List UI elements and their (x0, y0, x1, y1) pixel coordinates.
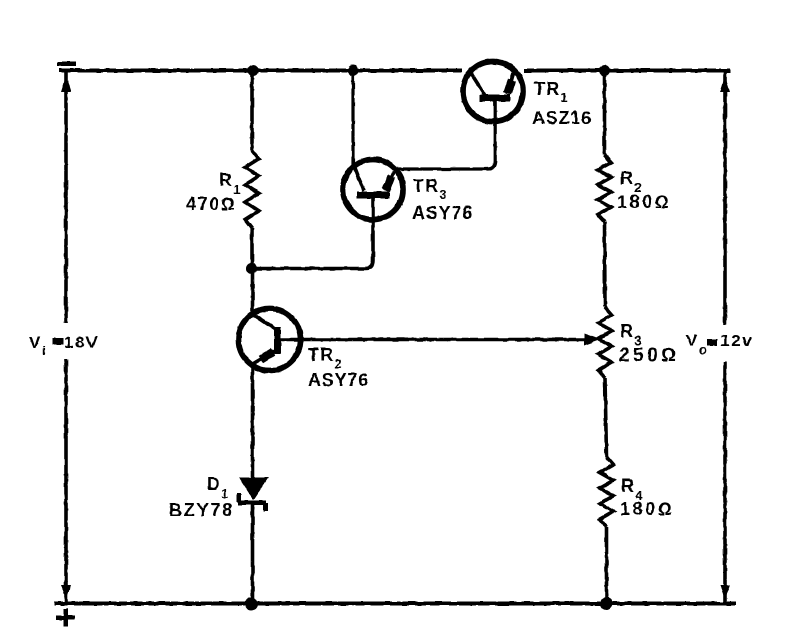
wire R2 top lead (603, 71, 607, 156)
svg-text:BZY78: BZY78 (169, 500, 234, 520)
transistor TR2 emitter arrow blob (261, 352, 273, 360)
wire bottom rail (54, 602, 736, 606)
arrowhead Vo top (720, 76, 730, 92)
transistor TR1 emitter arrow blob (508, 80, 513, 94)
plus sign bottom left (56, 616, 75, 621)
transistor TR2 base bar (274, 327, 281, 354)
svg-text:470Ω: 470Ω (186, 194, 236, 214)
transistor TR1 right diagonal (508, 73, 514, 94)
equals sign of Vi label (53, 338, 64, 345)
wire left input line upper (64, 69, 68, 323)
transistor TR3 circle (343, 160, 403, 220)
arrowhead Vi top (61, 76, 71, 92)
equals sign of Vo label (707, 339, 717, 346)
wire left input line lower (64, 359, 68, 605)
node R2 top on rail (599, 65, 610, 76)
resistor R4 (600, 457, 614, 527)
wire TR3 collector lead from rail (351, 71, 354, 166)
transistor TR2 lower diagonal (253, 351, 276, 364)
wire TR2 base to R3 wiper (280, 338, 585, 342)
resistor R2 (598, 155, 612, 222)
wire node A to TR2 collector (251, 269, 255, 314)
zener D1 left hook (237, 493, 242, 502)
wire right output line lower (723, 362, 727, 605)
arrowhead Vo bottom (720, 585, 730, 600)
arrowhead Vi bottom (61, 585, 71, 600)
zener diode D1 triangle (239, 478, 269, 501)
R3 wiper arrowhead (584, 334, 601, 346)
node A junction R1/TR3/TR2 (246, 263, 257, 274)
wire R1 top lead (250, 71, 254, 151)
transistor TR1 circle (463, 62, 523, 122)
svg-text:180Ω: 180Ω (617, 192, 671, 212)
wire R3 to R4 (605, 378, 607, 457)
wire TR3 base down and left to node A (252, 197, 374, 269)
zener D1 right hook (264, 503, 269, 511)
svg-text:250Ω: 250Ω (619, 345, 679, 366)
svg-text:ASZ16: ASZ16 (532, 108, 592, 128)
resistor R1 (245, 150, 259, 228)
node R1 top on rail (248, 65, 259, 76)
node D1 bottom rail (245, 598, 258, 611)
transistor TR3 emitter arrow blob (386, 176, 392, 191)
transistor TR3 base bar (357, 192, 390, 199)
minus sign top left (57, 62, 76, 67)
node R4 bottom rail (600, 597, 613, 610)
wire R1 bottom lead to node A (250, 228, 254, 269)
wire TR1 base down and left to TR3 (397, 102, 495, 170)
transistor TR1 left diagonal (472, 74, 486, 96)
wire top rail right segment (524, 69, 730, 73)
transistor TR1 base bar (480, 95, 511, 102)
zener diode D1 cathode bar (238, 501, 266, 506)
svg-text:ASY76: ASY76 (308, 370, 369, 390)
resistor R3 (598, 307, 612, 378)
wire D1 cathode to bottom rail (251, 503, 255, 605)
node TR3 top on rail (348, 65, 359, 76)
svg-text:ASY76: ASY76 (412, 203, 473, 223)
wire TR2 emitter down to D1 (251, 365, 255, 478)
transistor TR2 upper diagonal (253, 314, 276, 329)
wire R2 to R3 (603, 222, 607, 307)
wire right output line upper (723, 69, 727, 325)
transistor TR3 right diagonal (386, 172, 394, 191)
wire top rail left segment (59, 69, 462, 73)
svg-text:180Ω: 180Ω (620, 499, 674, 519)
transistor TR3 left diagonal (354, 164, 365, 191)
transistor TR2 circle (239, 309, 301, 371)
wire R4 bottom lead (605, 527, 609, 604)
